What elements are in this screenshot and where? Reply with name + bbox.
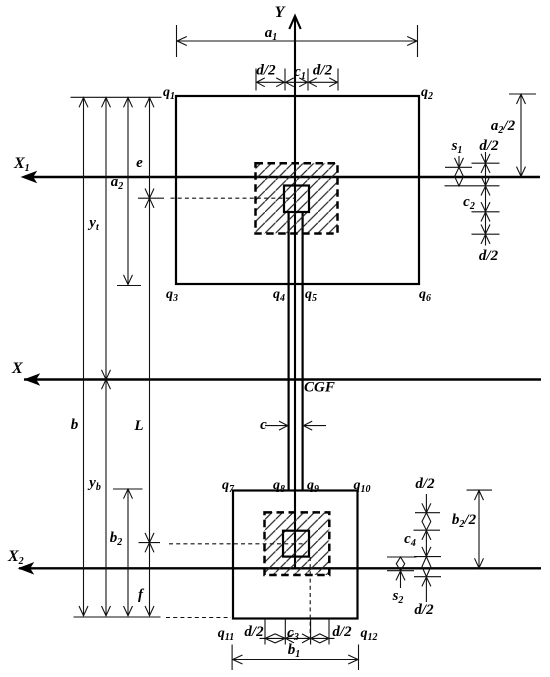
up arrow b top	[79, 98, 88, 108]
dim a1 line	[177, 40, 418, 42]
svg-text:s2: s2	[392, 588, 404, 606]
s2 diamond	[396, 557, 404, 571]
left top tick bar	[71, 96, 162, 98]
d2c1d2 tick 1	[255, 69, 257, 91]
d2c1d2 tick 2	[284, 69, 286, 91]
dim a2/2 line	[520, 94, 522, 176]
svg-text:q2: q2	[421, 85, 433, 102]
svg-text:q5: q5	[305, 287, 317, 304]
svg-text:f: f	[138, 587, 145, 603]
svg-text:c2: c2	[463, 194, 475, 212]
dim c right arrow	[304, 421, 327, 430]
axis Y line	[294, 16, 296, 568]
top slab rectangle	[176, 96, 419, 284]
svg-text:L: L	[133, 418, 143, 434]
b2/2 down arrowhead	[475, 558, 484, 568]
svg-text:q8: q8	[273, 478, 285, 495]
dim a1 right arrowhead	[407, 37, 417, 46]
L/f junction tick bar	[139, 542, 161, 544]
axis X arrowhead	[25, 374, 39, 385]
bottom-right chain tail bottom	[425, 577, 427, 602]
axis X1 line	[24, 176, 540, 178]
yt/yb crossing arrows	[102, 370, 111, 389]
svg-text:yb: yb	[87, 475, 101, 493]
d/2 diamond lower	[422, 557, 431, 577]
svg-text:q6: q6	[419, 287, 431, 304]
d/2 lower internal line	[485, 212, 487, 234]
svg-text:d/2: d/2	[256, 63, 276, 79]
up arrow b2 start	[124, 489, 133, 499]
top hatch area	[256, 163, 338, 233]
left dim line b2	[127, 489, 129, 616]
c4 top bar	[414, 529, 441, 531]
svg-text:c: c	[260, 417, 267, 433]
c2 bottom bar	[472, 211, 500, 213]
right chain tail top	[485, 152, 487, 163]
e/L crossing arrows	[145, 189, 154, 208]
svg-text:b2/2: b2/2	[452, 512, 477, 530]
s1 top bar	[445, 166, 472, 168]
a2 bottom tick bar	[117, 285, 141, 287]
dashed vertical duct edge line	[309, 557, 311, 637]
up arrow yt top	[102, 98, 111, 108]
a2/2 up arrowhead	[517, 94, 526, 104]
b2 top tick bar	[113, 488, 143, 490]
left dim line e/L/f	[149, 97, 151, 616]
svg-text:b: b	[71, 417, 79, 433]
down arrow f bottom	[145, 606, 154, 616]
s2 bottom bar	[387, 570, 414, 572]
axis X1 arrowhead	[22, 172, 36, 183]
c1 double arrow	[286, 78, 308, 87]
shared bar under s1 and d/2	[445, 185, 500, 187]
left dim line yt/yb	[105, 97, 107, 616]
L/f crossing arrows	[145, 533, 154, 552]
dashed centroid line top	[171, 197, 296, 199]
s2 top bar	[387, 556, 417, 558]
svg-text:d/2: d/2	[415, 476, 435, 492]
top anchor solid square	[284, 186, 309, 213]
svg-text:d/2: d/2	[414, 602, 434, 618]
d/2 diamond upper	[422, 513, 431, 531]
axis Y arrowhead	[289, 16, 300, 29]
svg-text:Y: Y	[275, 4, 286, 21]
dim c left arrow	[265, 421, 288, 430]
svg-text:d/2: d/2	[313, 63, 333, 79]
dim b2/2 line	[478, 490, 480, 568]
dashed centroid line bottom	[169, 543, 306, 545]
bottom tick 4	[328, 619, 330, 645]
b2/2 up arrowhead	[475, 490, 484, 500]
c4 bottom bar	[414, 556, 441, 558]
svg-text:b1: b1	[288, 642, 301, 660]
bottom-right up arrowhead lower	[422, 577, 431, 586]
axis X2 arrowhead	[19, 563, 33, 574]
svg-text:a2/2: a2/2	[491, 118, 516, 136]
svg-text:X: X	[11, 360, 23, 377]
s1 diamond	[455, 167, 464, 186]
svg-text:d/2: d/2	[479, 248, 499, 264]
axis X line	[24, 378, 541, 380]
s2 tail	[400, 571, 402, 588]
left bottom tick bar	[74, 616, 161, 618]
right chain down arrowhead at top bar	[481, 154, 490, 163]
left dim line a2	[127, 97, 129, 285]
dim a1 right tick	[417, 25, 419, 57]
bottom tick 3	[310, 619, 312, 645]
dim a1 left arrowhead	[177, 37, 187, 46]
bottom tick 1	[264, 619, 266, 645]
up arrow a2 top	[124, 98, 133, 108]
c3 double arrow	[285, 634, 310, 643]
svg-text:X1: X1	[13, 155, 30, 174]
s1 down arrowhead	[455, 158, 464, 167]
svg-text:d/2: d/2	[332, 624, 352, 640]
top dashed square	[256, 163, 338, 233]
dim b1 line	[233, 659, 359, 661]
c2 internal arrowheads	[481, 186, 490, 211]
d/2 bottom-left diamond	[260, 634, 291, 643]
web member right edge	[302, 212, 304, 491]
svg-text:d/2: d/2	[479, 138, 499, 154]
dim a1 left tick	[176, 25, 178, 57]
b1 right arrowhead	[348, 655, 358, 664]
right chain up arrowhead at lower bar	[481, 235, 490, 244]
bottom anchor solid square	[283, 531, 309, 557]
svg-text:q4: q4	[273, 287, 285, 304]
svg-text:X2: X2	[7, 548, 24, 567]
a2/2 down arrowhead	[517, 167, 526, 177]
svg-text:b2: b2	[110, 530, 123, 548]
down arrow a2 end	[124, 275, 133, 285]
bottom hatch area	[265, 512, 330, 575]
bottom-right chain tail top	[425, 494, 427, 513]
svg-text:q11: q11	[218, 626, 234, 643]
b1 left arrowhead	[233, 655, 243, 664]
left dim line b	[83, 97, 85, 616]
svg-text:q3: q3	[166, 287, 178, 304]
svg-text:s1: s1	[451, 138, 463, 156]
e/L junction tick bar	[138, 197, 164, 199]
svg-text:CGF: CGF	[304, 380, 335, 396]
down arrow yb bottom	[102, 606, 111, 616]
svg-text:q9: q9	[307, 478, 319, 495]
bottom-right chain top bar	[415, 512, 440, 514]
axis X2 line	[19, 567, 541, 569]
d2c1d2 tick 3	[307, 69, 309, 91]
svg-text:d/2: d/2	[244, 624, 264, 640]
bottom tick 2	[284, 619, 286, 645]
svg-text:c3: c3	[287, 625, 299, 643]
d/2 lower bar	[472, 233, 500, 235]
svg-text:c4: c4	[404, 531, 416, 549]
d2c1d2 tick 4	[337, 69, 339, 91]
d/2 bottom-right diamond	[305, 634, 335, 643]
b1 left tick	[231, 645, 233, 671]
web member left edge	[288, 212, 290, 491]
right chain top bar	[472, 162, 500, 164]
b2/2 top bar	[467, 489, 493, 491]
a2/2 top bar	[509, 93, 536, 95]
svg-text:q7: q7	[222, 478, 235, 495]
d/2 internal line 163-186	[485, 163, 487, 186]
svg-text:e: e	[136, 155, 143, 171]
down arrow b bottom	[79, 606, 88, 616]
svg-text:q12: q12	[361, 626, 378, 643]
d/2 top-left double arrow	[257, 78, 285, 87]
c4 internal line	[425, 530, 427, 556]
svg-text:yt: yt	[87, 215, 100, 233]
svg-text:q1: q1	[163, 85, 175, 102]
s1 tail line	[458, 156, 460, 167]
c2 internal line 186-212	[485, 186, 487, 212]
d/2 top-right double arrow	[309, 78, 338, 87]
bottom-right chain down arrowhead top	[422, 503, 431, 512]
up arrow e top	[145, 98, 154, 108]
s2 up arrowhead	[396, 571, 405, 580]
down arrow b2 bottom	[124, 606, 133, 616]
svg-text:q10: q10	[354, 478, 371, 495]
c4 internal arrowheads	[422, 531, 431, 557]
bottom slab rectangle	[233, 491, 358, 619]
svg-text:a1: a1	[265, 25, 278, 43]
bottom-right lower bar	[414, 576, 441, 578]
right chain tail bottom	[485, 234, 487, 245]
bottom dashed square	[265, 512, 330, 575]
dashed bottom-left extension line	[166, 617, 231, 619]
b1 right tick	[358, 645, 360, 671]
svg-text:c1: c1	[294, 64, 306, 82]
d/2 internal arrowheads	[481, 164, 490, 186]
d/2 lower internal arrowheads	[481, 212, 490, 234]
